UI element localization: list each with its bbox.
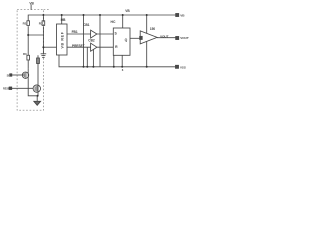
svg-text:VB: VB	[29, 1, 34, 5]
svg-text:150: 150	[150, 27, 156, 31]
wire RESET to Q2 gate	[12, 87, 33, 89]
wire CB1 out	[97, 33, 113, 35]
wire R3 bottom	[27, 61, 29, 69]
wire SD to Q1 gate	[12, 74, 24, 76]
wire vertical rail drop B	[99, 15, 101, 67]
svg-text:PRESET: PRESET	[72, 44, 85, 48]
wire VB tick	[30, 5, 32, 10]
resistor R2	[42, 21, 45, 26]
wire R2 chain down	[42, 35, 44, 54]
wire buffer gnd pin	[146, 41, 148, 66]
wire latch bottom pin B	[121, 55, 123, 67]
terminal RESET	[9, 87, 12, 90]
wire VREF bottom pin to VSS rail	[59, 55, 176, 67]
svg-text:FB1: FB1	[72, 30, 78, 34]
svg-text:R3: R3	[23, 52, 27, 56]
wire divider tap	[28, 26, 43, 35]
terminal SD	[10, 74, 12, 76]
ground G2	[41, 53, 47, 55]
svg-text:R1: R1	[23, 21, 27, 25]
svg-text:VB: VB	[180, 14, 185, 18]
wire latch bottom pin A	[113, 55, 115, 67]
ground	[34, 101, 41, 105]
buffer U3	[140, 31, 157, 44]
junction dots	[27, 14, 148, 97]
labels	[3, 1, 189, 90]
terminal VSS	[176, 65, 179, 68]
svg-text:R2: R2	[39, 21, 43, 25]
terminal OUT	[176, 37, 179, 40]
buffer input box	[140, 36, 143, 39]
svg-text:HC: HC	[111, 20, 116, 24]
svg-text:RESET: RESET	[3, 88, 12, 91]
comparator CB2	[91, 43, 97, 51]
wire OUT	[157, 37, 176, 39]
resistor R1	[27, 21, 30, 26]
svg-text:VB REF: VB REF	[61, 31, 65, 48]
svg-text:CB2: CB2	[88, 38, 95, 42]
svg-text:VSS: VSS	[180, 66, 186, 70]
svg-text:VB: VB	[125, 9, 130, 13]
wire R2 top	[42, 15, 44, 21]
svg-text:HB: HB	[61, 18, 66, 22]
svg-text:VOUT: VOUT	[180, 36, 189, 40]
svg-text:CB1: CB1	[83, 23, 90, 27]
wire vertical rail drop A	[83, 15, 85, 67]
svg-text:VOUT: VOUT	[160, 34, 169, 38]
transistor Q1	[22, 72, 28, 78]
svg-text:Q: Q	[125, 38, 128, 42]
wire Q2 source to ground	[37, 92, 39, 96]
wire top rail	[28, 15, 176, 21]
latch U2	[113, 28, 130, 55]
comparator CB1	[91, 30, 97, 38]
wire Q out	[130, 37, 140, 39]
wire VREF top pin	[61, 15, 63, 24]
wire R1 bottom	[27, 26, 29, 55]
wire buffer power pin	[146, 15, 148, 33]
terminal VB right	[176, 14, 179, 17]
wire CB2 out	[97, 46, 113, 48]
wire PRESET	[43, 46, 56, 48]
wire comparator gnd drop A	[86, 47, 88, 67]
transistor Q2	[33, 85, 40, 92]
svg-text:SD: SD	[7, 74, 11, 78]
wire latch top pin	[122, 15, 124, 28]
resistor R5	[37, 55, 39, 58]
wire FB1	[67, 33, 91, 35]
wire Q1 source down	[28, 78, 38, 95]
resistor R3	[27, 55, 30, 60]
block VREF U1	[57, 24, 68, 55]
dashed box	[44, 9, 50, 11]
wire comparator gnd drop B	[92, 50, 94, 67]
wire R5 to Q2 drain	[37, 64, 39, 86]
